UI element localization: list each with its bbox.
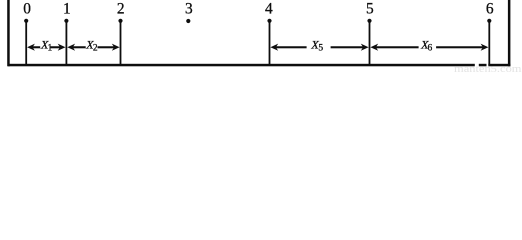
bottom frame line, right segment to corner — [488, 64, 510, 67]
point 2 dot — [118, 19, 122, 23]
svg-text:4: 4 — [265, 1, 273, 18]
point 2 tick — [120, 20, 122, 66]
svg-text:6: 6 — [428, 44, 433, 54]
point 3 dot — [186, 19, 190, 23]
interval arrow X1 left head — [27, 44, 35, 51]
svg-text:6: 6 — [486, 1, 494, 18]
point 4 dot — [267, 19, 271, 23]
interval arrow X1 left line — [32, 46, 40, 48]
interval arrow X2 left head — [67, 44, 75, 51]
bottom frame line (axis), main left segment — [8, 64, 475, 67]
svg-text:2: 2 — [117, 1, 125, 18]
svg-text:5: 5 — [366, 1, 374, 18]
point 0 dot — [24, 19, 28, 23]
point 1 tick — [66, 20, 68, 66]
interval arrow X5 right line — [331, 46, 364, 48]
svg-text:0: 0 — [23, 1, 31, 18]
interval arrow X1 right line — [50, 46, 61, 48]
interval arrow X2 right head — [112, 44, 120, 51]
interval arrow X6 right head — [481, 44, 489, 51]
point 4 tick — [269, 20, 271, 66]
point 6 tick — [488, 20, 490, 66]
svg-text:3: 3 — [185, 1, 193, 18]
interval arrow X2 left line — [73, 46, 86, 48]
interval arrow X1 right head — [58, 44, 66, 51]
interval arrow X5 right head — [361, 44, 369, 51]
svg-text:1: 1 — [48, 44, 53, 54]
interval arrow X5 left line — [276, 46, 307, 48]
bottom frame line, short segment before tick 6 — [479, 64, 487, 67]
right frame border — [508, 0, 511, 66]
point 5 dot — [367, 19, 371, 23]
point 0 tick — [25, 20, 27, 66]
point 5 tick — [369, 20, 371, 66]
svg-text:1: 1 — [63, 1, 71, 18]
interval arrow X5 left head — [270, 44, 278, 51]
point 6 dot — [487, 19, 491, 23]
svg-text:2: 2 — [93, 44, 98, 54]
interval arrow X6 right line — [436, 46, 484, 48]
svg-text:5: 5 — [318, 44, 323, 54]
left frame border — [7, 0, 10, 66]
interval arrow X6 left line — [376, 46, 419, 48]
point 1 dot — [64, 19, 68, 23]
interval arrow X6 left head — [370, 44, 378, 51]
interval arrow X2 right line — [98, 46, 116, 48]
